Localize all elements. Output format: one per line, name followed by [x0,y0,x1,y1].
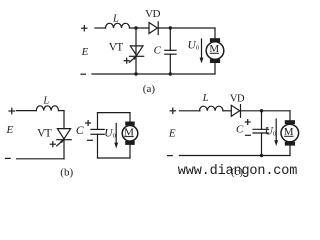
terminal minus (c) [168,155,173,157]
top wire (b loop2) [98,112,131,114]
wire L to corner (b) [59,110,65,112]
node VT bottom junction (a) [134,72,137,75]
node VD-C junction (c) [260,109,263,112]
motor M (b) [122,122,138,145]
capacitor C branch (c) [253,111,269,156]
wire corner to motor (a) [214,28,216,38]
svg-text:U0: U0 [265,125,277,137]
bottom wire (a) [92,73,215,75]
node L-VT junction (a) [134,26,137,29]
wire top-left (a) [95,27,106,29]
svg-text:L: L [42,95,49,106]
svg-text:VT: VT [109,41,124,53]
wire L to VD (c) [223,110,231,112]
svg-text:U0: U0 [188,40,200,52]
thyristor VT (b) [57,129,72,146]
output voltage arrow (c) [274,119,278,146]
wire motor to bottom (a) [214,63,216,74]
wire VD to corner (a) [158,27,215,29]
wire top-left (b) [17,110,37,112]
wire L to VD (a) [130,27,150,29]
svg-text:(a): (a) [143,83,156,95]
output voltage arrow (b) [114,124,118,149]
svg-text:U0: U0 [104,127,116,139]
motor M (a) [206,38,224,63]
svg-text:(c): (c) [231,166,244,178]
motor M (c) [281,120,299,145]
wire VT to bottom corner (b) [63,139,65,159]
thyristor gate plus mark (b) [50,142,55,147]
terminal plus (b) [9,108,15,114]
svg-text:C: C [76,125,84,137]
terminal plus (a) [82,26,87,31]
svg-text:(b): (b) [60,166,73,178]
bottom wire (c) [180,155,291,157]
bottom wire (b) [17,158,65,160]
thyristor VT (a) [129,46,143,62]
svg-text:C: C [154,45,162,57]
node C bottom junction (a) [169,72,172,75]
output voltage arrow (a) [200,39,204,63]
wire motor to bottom (b) [129,145,131,158]
node VD-C junction (a) [169,26,172,29]
inductor L (b) [36,106,58,111]
capacitor plus mark (c) [245,120,250,125]
diode VD (a) [149,22,158,35]
terminal plus (c) [170,108,175,113]
capacitor minus mark (b) [88,139,93,141]
wire corner to motor (c) [289,111,291,121]
svg-text:L: L [112,13,119,24]
svg-text:E: E [81,46,89,58]
terminal minus (b) [6,157,11,159]
svg-text:E: E [6,124,14,136]
svg-text:L: L [202,93,209,104]
wire top-left (c) [180,110,201,112]
terminal minus (a) [81,73,85,75]
svg-text:VT: VT [37,128,52,140]
capacitor C (b) [91,113,104,158]
thyristor VT branch wire (a) [135,28,137,74]
svg-text:VD: VD [230,94,245,105]
svg-text:C: C [236,124,244,136]
svg-text:E: E [168,128,176,140]
wire corner down to VT (b) [63,111,65,129]
capacitor C branch (a) [165,28,176,74]
wire motor to bottom (c) [289,146,291,156]
inductor L (a) [106,23,130,28]
node C bottom junction (c) [260,154,263,157]
svg-text:VD: VD [145,8,160,20]
thyristor gate plus mark (a) [124,58,129,63]
capacitor plus mark (b) [86,121,91,126]
wire VD to corner (c) [241,110,291,112]
wire corner to motor (b) [129,113,131,122]
bottom wire (b loop2) [98,157,131,159]
diode VD (c) [231,105,240,118]
inductor L (c) [200,106,223,111]
capacitor minus mark (c) [246,134,251,136]
